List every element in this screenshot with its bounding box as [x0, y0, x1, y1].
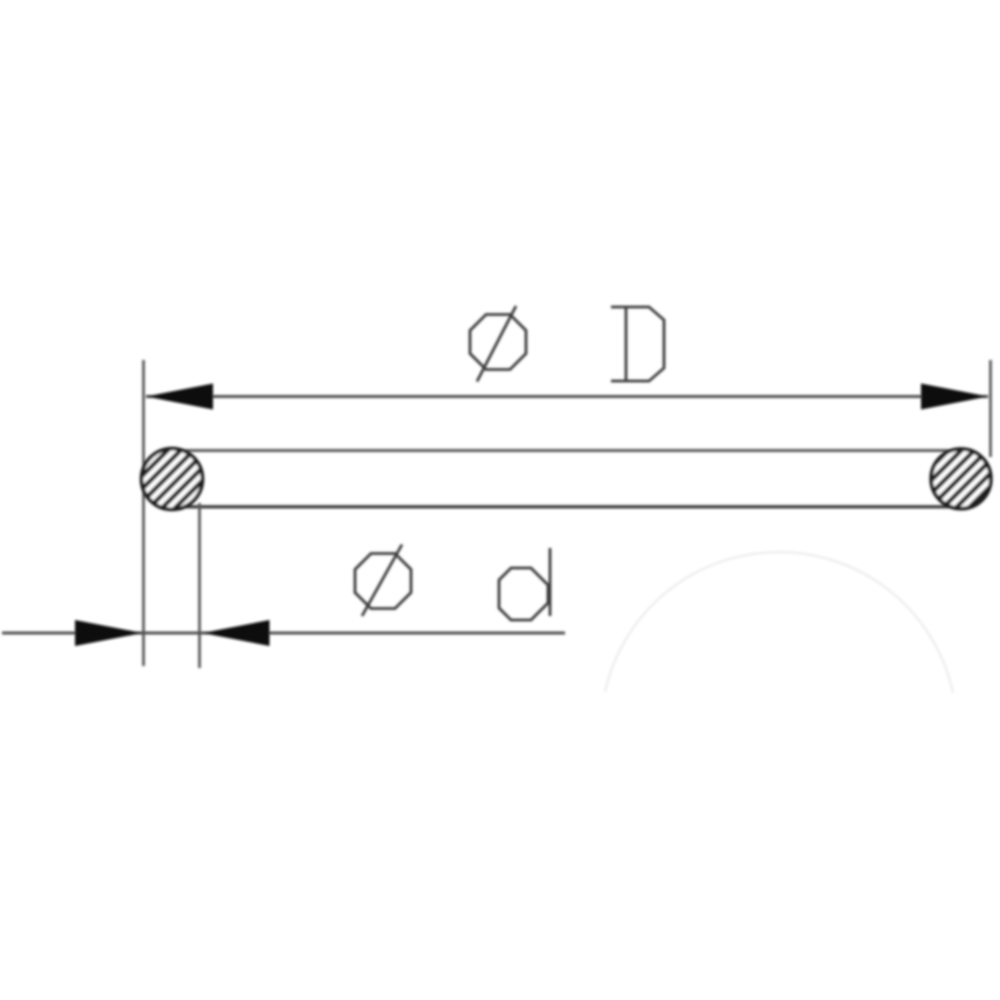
faint watermark circle arc (bottom right)	[605, 552, 953, 693]
O-ring side view: top tangent line	[173, 449, 961, 452]
dimension line D	[146, 395, 988, 398]
extension line for cross-section d (right side)	[198, 503, 201, 668]
dimension line d	[2, 632, 565, 635]
extension line left (outer diameter, shared with d dim)	[142, 360, 145, 666]
O-ring side view: bottom tangent line	[173, 505, 961, 508]
label d	[499, 548, 550, 620]
right cross-section circle (hatched)	[931, 449, 991, 509]
arrowhead d right (pointing left)	[203, 620, 270, 646]
label phi (for d)	[355, 545, 411, 617]
label phi (for D)	[470, 306, 526, 382]
label D	[611, 307, 664, 381]
arrowhead D left	[146, 384, 213, 410]
left cross-section circle (hatched)	[142, 449, 203, 510]
arrowhead d left (pointing right)	[75, 620, 143, 646]
extension line right (outer diameter)	[989, 360, 992, 457]
arrowhead D right	[921, 384, 988, 410]
